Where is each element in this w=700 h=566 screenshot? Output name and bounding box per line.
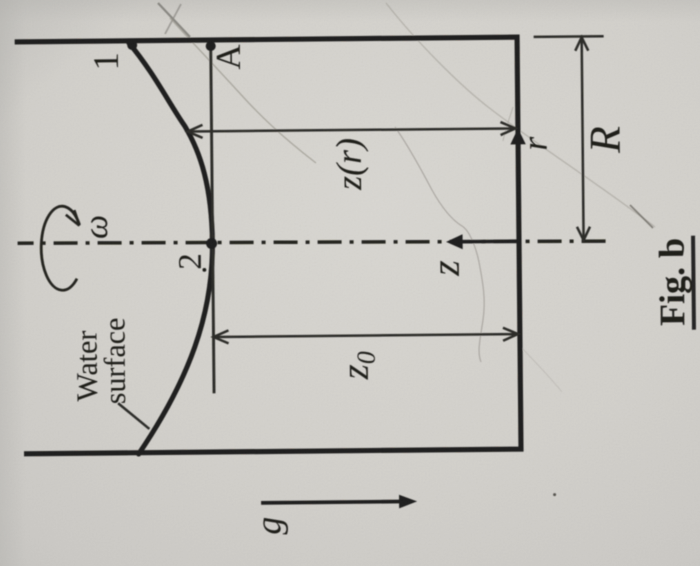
top edge shading: [0, 0, 700, 22]
r axis arrowhead on tank bottom (solid, pointing right): [510, 128, 526, 144]
caption underline: [691, 236, 696, 330]
wall extension line below tank: [534, 35, 604, 38]
faint scratch S1: [170, 18, 316, 163]
top-left corner shading: [0, 0, 300, 250]
leader line to water surface: [118, 403, 149, 429]
pencil scratch X mark second stroke: [165, 4, 181, 34]
scratch S2 dark tail: [630, 205, 653, 228]
left edge shading: [0, 0, 26, 566]
z0 dimension line: [215, 334, 517, 337]
tiny ink speck: [553, 493, 556, 496]
faint hairline crack: [395, 127, 484, 362]
water surface parabola: [129, 42, 215, 454]
point 2 (vertex): [206, 238, 217, 249]
faint scratch S2: [386, 3, 655, 227]
z(r) bottom arrowhead: [500, 122, 515, 135]
axis of rotation (dash-dot): [18, 238, 606, 247]
omega rotation arc around axis: [41, 206, 80, 290]
tank walls (left wall, bottom, right wall): [15, 37, 521, 454]
R right arrowhead: [575, 37, 588, 51]
pencil scratch X mark top-left: [158, 3, 190, 37]
hairline fragment near wall: [503, 107, 513, 141]
z0 top arrowhead: [213, 330, 228, 343]
faint bottom-right scratch: [521, 347, 562, 392]
point 1: [127, 40, 137, 50]
z axis arrow (solid, pointing up along axis): [461, 239, 519, 243]
period after label 2: [202, 268, 206, 272]
omega arrowhead: [66, 210, 80, 226]
z(r) top arrowhead: [187, 125, 202, 138]
R dimension line below tank: [582, 39, 584, 239]
R left arrowhead: [577, 227, 590, 241]
z0 bottom arrowhead: [503, 328, 518, 341]
z(r) dimension line: [189, 128, 515, 131]
g (gravity) arrow: [261, 502, 401, 503]
point A: [206, 41, 216, 51]
level line through vertex: [211, 43, 214, 393]
